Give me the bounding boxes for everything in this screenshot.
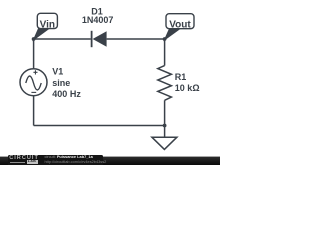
junction dot ground node [163,124,167,128]
wire left lower (V1 bottom to bottom rail) [33,96,35,125]
wire right lower (R1 bottom to ground junction) [164,100,166,125]
watermark circuit name [45,154,93,159]
diode D1 cathode bar [91,31,93,47]
svg-text:Vin: Vin [40,19,55,30]
watermark logo block background [8,155,104,165]
flag Vin box [37,13,57,28]
svg-text:10 kΩ: 10 kΩ [175,83,200,93]
CircuitLab logo word CIRCUIT [9,155,39,161]
ground symbol [152,137,177,149]
wire left upper (node Vin down to V1 top) [33,39,35,68]
svg-text:Vout: Vout [169,19,191,30]
wire top-right (D1 anode to node Vout) [107,38,165,40]
svg-text:V1: V1 [52,67,63,77]
flag Vout tail [165,29,181,40]
source V1 sine wave [26,76,41,90]
source V1 plus sign [33,70,37,74]
CircuitLab logo LAB chip [27,160,38,163]
wire ground stub [164,126,166,138]
watermark bar [0,0,220,165]
svg-text:R1: R1 [175,72,187,82]
wire right upper (node Vout down to R1 top) [164,39,166,66]
schematic canvas [0,0,220,165]
watermark url [45,159,107,164]
junction dot node Vout [163,37,167,41]
wire top-left (node Vin to D1 cathode) [34,38,91,40]
diode D1 triangle [93,31,107,46]
flag Vout box [166,14,194,29]
svg-text:sine: sine [52,78,70,88]
CircuitLab logo line [10,161,25,164]
wire bottom rail [34,125,165,127]
svg-text:400 Hz: 400 Hz [52,89,81,99]
source V1 minus sign [31,91,36,93]
resistor R1 zigzag [158,66,172,101]
svg-text:1N4007: 1N4007 [82,15,114,25]
junction dot node Vin [32,37,36,41]
source V1 circle [20,69,47,96]
flag Vin tail [34,28,50,40]
